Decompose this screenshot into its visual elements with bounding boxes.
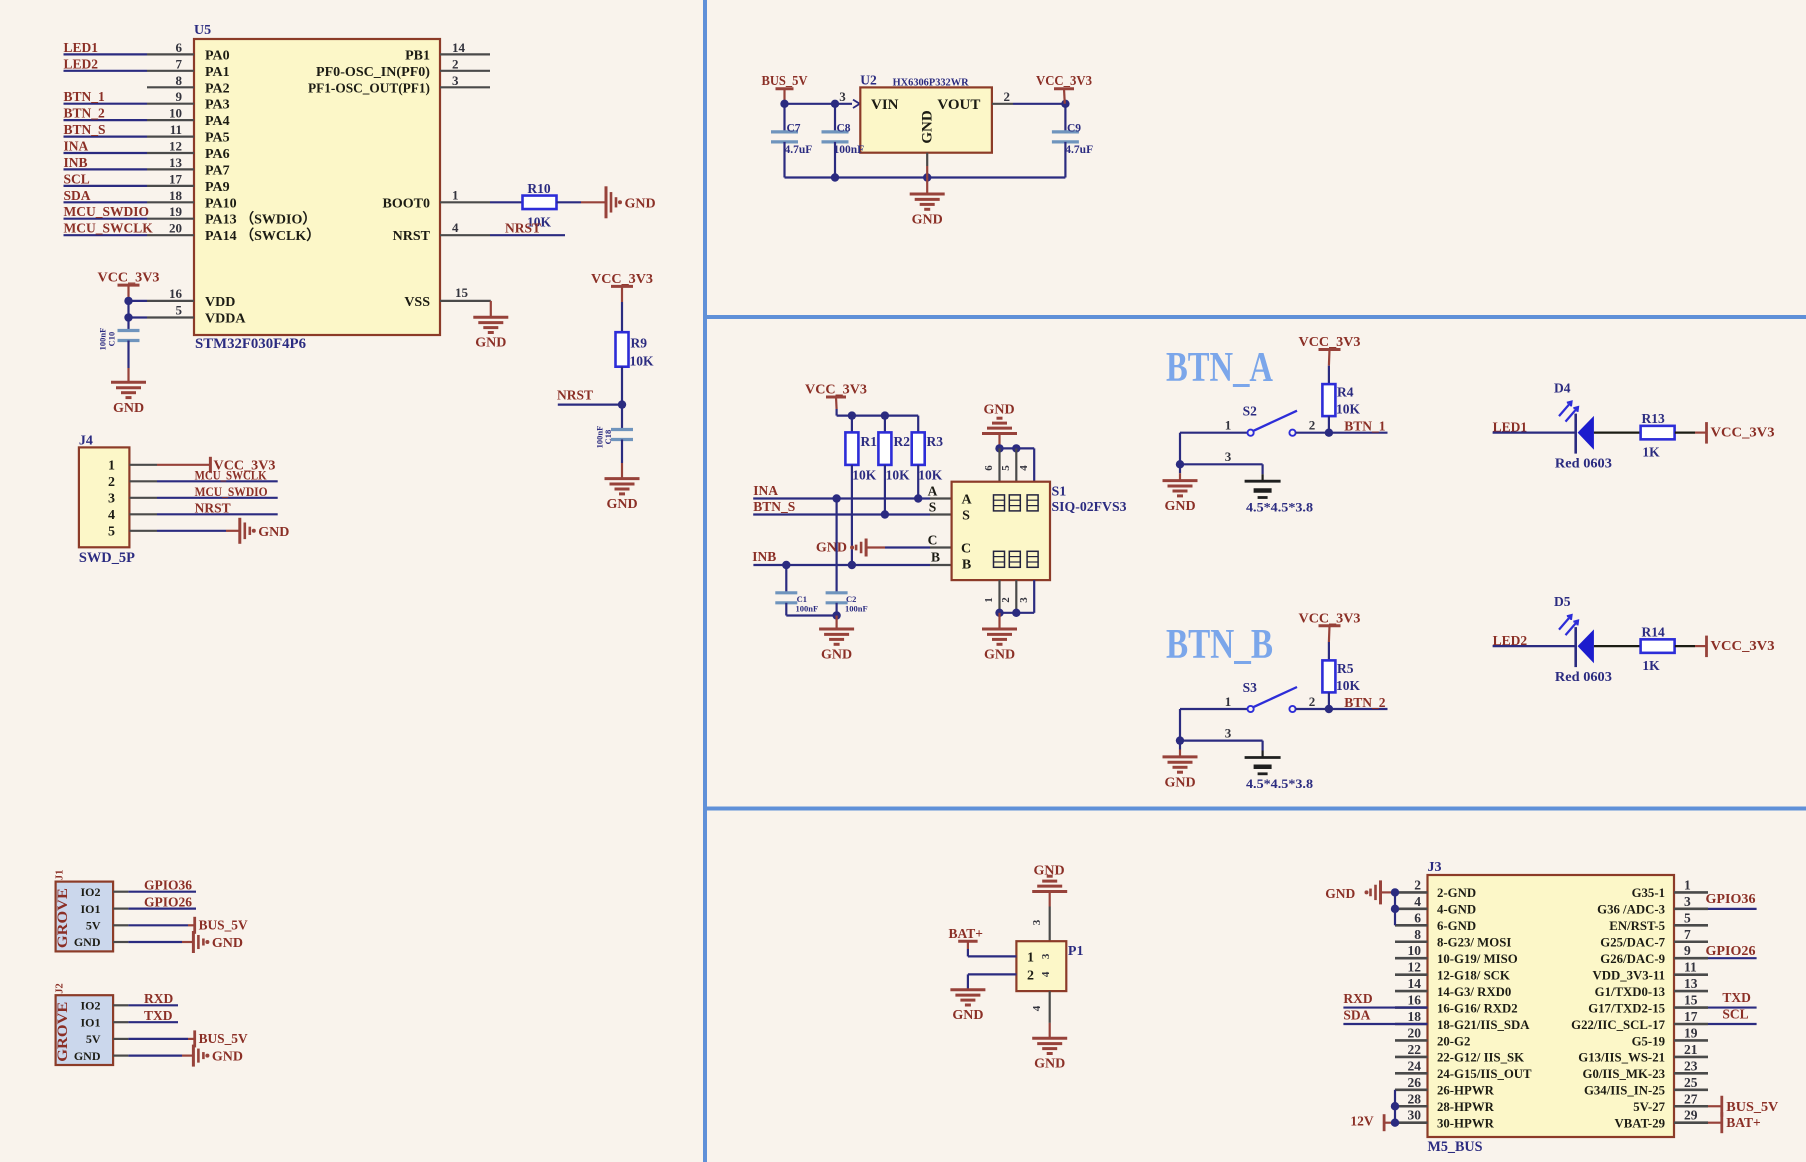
S1 pin 6 stub: [998, 448, 1000, 481]
svg-text:5V-27: 5V-27: [1633, 1100, 1665, 1114]
svg-text:2: 2: [1309, 694, 1316, 709]
junction pin28: [1391, 1102, 1399, 1110]
S1 contact glyph: [1027, 551, 1038, 567]
svg-text:19: 19: [169, 204, 183, 219]
junction pin4: [1391, 905, 1399, 913]
svg-text:R9: R9: [631, 336, 648, 351]
S1 contact glyph: [1009, 551, 1020, 567]
svg-text:11: 11: [170, 122, 182, 137]
junction BTN_1: [1325, 429, 1333, 437]
svg-text:B: B: [931, 550, 940, 565]
svg-text:INA: INA: [64, 139, 89, 154]
svg-text:18-G21/IIS_SDA: 18-G21/IIS_SDA: [1437, 1018, 1530, 1032]
svg-text:IO2: IO2: [80, 885, 100, 899]
svg-text:4-GND: 4-GND: [1437, 903, 1476, 917]
svg-text:PA4: PA4: [205, 114, 230, 129]
capacitor C2 100nF: [826, 591, 848, 594]
svg-text:GPIO26: GPIO26: [144, 894, 192, 909]
wire VCC to VDD VDDA: [129, 300, 148, 302]
svg-text:PA3: PA3: [205, 98, 230, 113]
svg-text:10K: 10K: [1336, 678, 1361, 693]
J3 pin 15 G17/TXD2-15: [1674, 1006, 1708, 1009]
J3 pin 10 10-G19/ MISO: [1395, 957, 1428, 960]
junction S1 pin 5: [1012, 444, 1020, 452]
wire BAT+ to pin1: [967, 949, 969, 956]
U2 GND pin wire: [926, 153, 928, 166]
svg-text:GND: GND: [113, 401, 144, 416]
junction C2 gnd: [832, 611, 840, 619]
power VCC_3V3 at J4: [209, 457, 212, 473]
wire P1 pin 3 to gnd: [1049, 892, 1051, 907]
svg-text:28-HPWR: 28-HPWR: [1437, 1100, 1495, 1114]
wire pin3 to chassis: [1261, 464, 1263, 474]
svg-text:S: S: [929, 500, 937, 515]
svg-text:MCU_SWCLK: MCU_SWCLK: [195, 469, 267, 483]
J3 pin 2 2-GND: [1395, 891, 1428, 894]
wire led to resistor: [1594, 645, 1641, 647]
svg-text:PA14 （SWCLK）: PA14 （SWCLK）: [205, 228, 320, 244]
svg-text:VCC_3V3: VCC_3V3: [1036, 73, 1092, 88]
svg-text:3: 3: [1225, 726, 1232, 741]
svg-text:C2: C2: [846, 594, 856, 604]
svg-text:VOUT: VOUT: [937, 97, 980, 113]
wire net TXD: [128, 1021, 178, 1023]
svg-text:8-G23/ MOSI: 8-G23/ MOSI: [1437, 936, 1511, 950]
ground GND below C18: [605, 477, 640, 480]
U5 pin 2 PF0-OSC_IN(PF0): [440, 70, 490, 72]
svg-text:GND: GND: [625, 196, 656, 211]
svg-text:GND: GND: [816, 541, 847, 556]
svg-text:5: 5: [176, 303, 183, 318]
power BUS_5V bar: [193, 917, 196, 934]
J2 pin IO1 stub: [113, 1021, 128, 1023]
J3 pin 22 22-G12/ IIS_SK: [1395, 1056, 1428, 1059]
svg-text:2: 2: [1414, 877, 1421, 892]
J1 pin IO2 stub: [113, 891, 128, 893]
resistor R10: [523, 196, 557, 210]
svg-text:U2: U2: [860, 73, 877, 88]
J2 pin 5V stub: [113, 1038, 128, 1040]
U5 pin 16 VDD: [147, 300, 194, 302]
svg-text:GND: GND: [212, 1050, 243, 1065]
svg-text:28: 28: [1408, 1091, 1422, 1106]
wire net LED1: [64, 53, 148, 55]
svg-text:6: 6: [983, 465, 995, 471]
svg-text:2: 2: [1309, 418, 1316, 433]
capacitor C7 4.7uF: [783, 104, 785, 132]
svg-text:PA10: PA10: [205, 196, 237, 211]
capacitor C9 4.7uF: [1064, 104, 1066, 132]
svg-text:11: 11: [1684, 960, 1697, 975]
junction S1 pin 6: [995, 444, 1003, 452]
svg-text:3: 3: [452, 73, 459, 88]
ground GND at J4: [238, 518, 241, 544]
wire VSS to ground: [490, 301, 492, 317]
U5 pin 17 PA9: [147, 185, 194, 187]
junction node VDDA: [124, 313, 132, 321]
wire net MCU_SWDIO: [64, 218, 148, 220]
resistor R1 10K: [851, 416, 853, 433]
svg-text:GROVE: GROVE: [55, 888, 71, 948]
J2 pin IO2 stub: [113, 1004, 128, 1006]
U5 pin 7 PA1: [147, 70, 194, 72]
svg-text:PA5: PA5: [205, 131, 230, 146]
J3 pin 12 12-G18/ SCK: [1395, 973, 1428, 976]
svg-text:R5: R5: [1337, 661, 1354, 676]
svg-text:SCL: SCL: [64, 171, 90, 186]
svg-text:VDDA: VDDA: [205, 312, 246, 327]
svg-text:BTN_S: BTN_S: [753, 499, 795, 514]
junction BTN_S R2: [881, 510, 889, 518]
ground GND at VSS: [473, 316, 508, 319]
J3 pin 28 28-HPWR: [1395, 1105, 1428, 1108]
resistor R2 10K: [884, 416, 886, 433]
svg-text:8: 8: [1414, 927, 1421, 942]
svg-text:IO1: IO1: [80, 1015, 100, 1029]
wire pin3 row: [1180, 463, 1263, 465]
svg-text:18: 18: [169, 188, 183, 203]
ground GND at P1 pin2: [950, 988, 985, 991]
connector J4 box: [79, 447, 129, 547]
mcu U5 box: [194, 39, 440, 335]
svg-text:2: 2: [1004, 89, 1011, 104]
S1 pin 4 stub: [1033, 448, 1035, 481]
svg-text:100nF: 100nF: [796, 604, 819, 614]
svg-text:1: 1: [1225, 418, 1232, 433]
svg-text:VCC_3V3: VCC_3V3: [98, 270, 160, 285]
wire net BTN_1: [1329, 432, 1388, 434]
J3 pin 14 14-G3/ RXD0: [1395, 990, 1428, 993]
svg-text:A: A: [928, 484, 938, 499]
svg-text:3: 3: [1684, 894, 1691, 909]
svg-text:17: 17: [1684, 1009, 1698, 1024]
svg-text:TXD: TXD: [144, 1008, 173, 1023]
svg-text:BTN_1: BTN_1: [1344, 419, 1386, 434]
ground GND at J1: [192, 931, 195, 953]
svg-text:M5_BUS: M5_BUS: [1428, 1139, 1483, 1155]
svg-text:6-GND: 6-GND: [1437, 919, 1476, 933]
svg-text:U5: U5: [194, 23, 211, 38]
wire net GPIO26: [128, 907, 196, 909]
svg-text:VSS: VSS: [404, 295, 430, 310]
svg-text:30-HPWR: 30-HPWR: [1437, 1117, 1495, 1131]
junction BTN_2: [1325, 705, 1333, 713]
svg-text:VDD: VDD: [205, 295, 235, 310]
J3 pin 17 G22/IIC_SCL-17: [1674, 1023, 1708, 1026]
svg-text:GND: GND: [1164, 775, 1195, 790]
wire VCC to R9: [621, 302, 623, 332]
wire pin3 row: [1180, 739, 1263, 741]
wire net NRST: [490, 234, 565, 236]
wire net BTN_2: [1329, 708, 1388, 710]
svg-text:C8: C8: [837, 123, 851, 135]
svg-text:GND: GND: [920, 110, 936, 144]
svg-text:3: 3: [1018, 597, 1030, 603]
svg-text:R14: R14: [1642, 625, 1665, 640]
svg-text:1: 1: [983, 597, 995, 603]
wire C1 C2 ground rail: [786, 614, 836, 616]
svg-text:SCL: SCL: [1722, 1007, 1748, 1022]
wire VDDA to C10: [127, 318, 129, 331]
junction VOUT C9: [1061, 100, 1069, 108]
svg-text:C: C: [961, 542, 971, 557]
connector J2 box: [56, 995, 114, 1065]
svg-text:R3: R3: [927, 434, 944, 449]
svg-text:2: 2: [108, 475, 115, 490]
J3 pin 24 24-G15/IIS_OUT: [1395, 1072, 1428, 1075]
ground GND below S1: [982, 628, 1017, 631]
led D4 triangle: [1578, 416, 1594, 450]
svg-text:P1: P1: [1068, 944, 1084, 959]
svg-text:2: 2: [452, 56, 459, 71]
svg-text:1: 1: [108, 459, 115, 474]
svg-text:14: 14: [1408, 976, 1422, 991]
svg-text:C9: C9: [1067, 123, 1081, 135]
svg-text:BTN_1: BTN_1: [64, 89, 106, 104]
U5 pin 8 PA2: [147, 86, 194, 88]
svg-text:1K: 1K: [1642, 658, 1660, 673]
svg-text:10K: 10K: [886, 468, 911, 483]
svg-text:VCC_3V3: VCC_3V3: [805, 382, 867, 397]
svg-text:GND: GND: [821, 648, 852, 663]
svg-text:1: 1: [452, 188, 459, 203]
svg-text:15: 15: [1684, 993, 1698, 1008]
svg-text:2-GND: 2-GND: [1437, 886, 1476, 900]
power VCC_3V3 at led: [1705, 636, 1708, 658]
junction S1 pin2: [1012, 609, 1020, 617]
J4 pin 4 wire NRST: [129, 513, 157, 515]
svg-text:10: 10: [169, 106, 182, 121]
svg-text:NRST: NRST: [195, 501, 231, 516]
svg-text:27: 27: [1684, 1091, 1698, 1106]
power BAT+ at J3: [1708, 1122, 1722, 1124]
wire R9 to NRST node: [621, 367, 623, 405]
resistor R5 10K: [1322, 660, 1335, 692]
J4 pin 3 wire MCU_SWDIO: [129, 497, 157, 499]
svg-text:3: 3: [839, 89, 846, 104]
wire to gnd: [1179, 464, 1181, 473]
U5 pin 6 PA0: [147, 53, 194, 55]
svg-text:14-G3/ RXD0: 14-G3/ RXD0: [1437, 985, 1511, 999]
capacitor C1 100nF: [785, 565, 787, 593]
J1 pin IO1 stub: [113, 907, 128, 909]
wire pin2 to gnd: [968, 973, 1017, 975]
svg-text:1: 1: [1225, 694, 1232, 709]
svg-text:5: 5: [108, 525, 115, 540]
svg-text:5V: 5V: [86, 1032, 101, 1046]
wire GND row: [128, 941, 182, 943]
svg-text:TXD: TXD: [1722, 990, 1751, 1005]
svg-text:PA6: PA6: [205, 147, 230, 162]
wire net SCL: [64, 185, 148, 187]
J3 pin 20 20-G2: [1395, 1039, 1428, 1042]
svg-text:C1: C1: [797, 594, 807, 604]
svg-text:22: 22: [1408, 1042, 1422, 1057]
J3 pin 11 VDD_3V3-11: [1674, 973, 1708, 976]
svg-text:16: 16: [169, 286, 183, 301]
wire GND row: [128, 1054, 182, 1056]
svg-text:SDA: SDA: [1343, 1008, 1370, 1023]
svg-text:4: 4: [1018, 465, 1030, 471]
wire C18 to GND: [621, 440, 623, 464]
svg-text:LED1: LED1: [64, 40, 99, 55]
svg-text:BTN_B: BTN_B: [1166, 622, 1273, 668]
svg-text:S2: S2: [1243, 404, 1258, 419]
svg-text:100nF: 100nF: [845, 604, 868, 614]
capacitor C8 100nF: [834, 104, 836, 132]
svg-text:VCC_3V3: VCC_3V3: [1299, 334, 1361, 349]
svg-text:C18: C18: [603, 430, 613, 445]
wire sheet divider horizontal lower: [703, 807, 1806, 811]
svg-text:R2: R2: [894, 434, 911, 449]
svg-text:GND: GND: [258, 525, 289, 540]
wire BUS_5V rail to VIN: [785, 103, 853, 105]
wire net BTN_S: [64, 136, 148, 138]
svg-text:1: 1: [1684, 877, 1691, 892]
svg-text:VIN: VIN: [871, 97, 899, 113]
wire net MCU_SWCLK: [64, 234, 148, 236]
svg-text:4.5*4.5*3.8: 4.5*4.5*3.8: [1246, 776, 1314, 791]
svg-text:PF1-OSC_OUT(PF1): PF1-OSC_OUT(PF1): [308, 81, 430, 96]
J3 pin 3 G36 /ADC-3: [1674, 908, 1708, 911]
svg-text:12-G18/ SCK: 12-G18/ SCK: [1437, 968, 1510, 982]
wire 5V to BUS_5V: [128, 924, 188, 926]
svg-text:GPIO36: GPIO36: [1706, 891, 1756, 906]
svg-text:RXD: RXD: [144, 991, 173, 1006]
svg-text:D5: D5: [1554, 594, 1571, 609]
U2 pin 2 VOUT wire: [992, 103, 1013, 105]
J3 pin 26 26-HPWR: [1395, 1089, 1428, 1092]
svg-text:INB: INB: [752, 549, 776, 564]
svg-text:A: A: [961, 493, 972, 508]
svg-text:B: B: [962, 558, 971, 573]
U5 pin 11 PA5: [147, 136, 194, 138]
resistor R4 10K: [1322, 384, 1335, 416]
J4 pin 2 wire MCU_SWCLK: [129, 480, 157, 482]
junction C8: [831, 100, 839, 108]
J3 pin 6 6-GND: [1395, 924, 1428, 927]
svg-text:26: 26: [1408, 1075, 1422, 1090]
svg-text:J2: J2: [55, 983, 66, 994]
svg-text:GND: GND: [475, 336, 506, 351]
connector P1 box: [1016, 941, 1066, 991]
svg-text:1: 1: [1027, 951, 1034, 966]
svg-text:4: 4: [452, 220, 459, 235]
svg-text:S3: S3: [1243, 680, 1258, 695]
J1 pin GND stub: [113, 941, 128, 943]
connector J3 box: [1428, 875, 1675, 1137]
wire net GPIO36: [128, 891, 196, 893]
svg-text:GND: GND: [952, 1008, 983, 1023]
svg-text:5: 5: [1684, 910, 1691, 925]
svg-text:13: 13: [1684, 976, 1698, 991]
J3 pin 18 18-G21/IIS_SDA: [1395, 1023, 1428, 1026]
svg-text:NRST: NRST: [557, 388, 593, 403]
wire switch pin1 down: [1179, 433, 1181, 465]
svg-text:S1: S1: [1052, 485, 1067, 500]
svg-text:PB1: PB1: [405, 48, 430, 63]
svg-text:GND: GND: [74, 935, 101, 949]
svg-text:PA0: PA0: [205, 48, 230, 63]
J3 pin 7 G25/DAC-7: [1674, 940, 1708, 943]
svg-text:29: 29: [1684, 1108, 1698, 1123]
svg-text:SWD_5P: SWD_5P: [79, 550, 135, 566]
J1 pin 5V stub: [113, 924, 128, 926]
wire gnd pins 2 4 6: [1394, 892, 1396, 925]
wire R1 bottom long to INB row: [851, 465, 853, 565]
J4 pin 5 wire to GND: [129, 530, 157, 532]
J3 pin 4 4-GND: [1395, 908, 1428, 911]
svg-text:PA9: PA9: [205, 180, 230, 195]
junction C7: [780, 100, 788, 108]
ground GND below C10: [111, 381, 146, 384]
S1 pin 1 stub: [998, 580, 1000, 613]
svg-text:6: 6: [1414, 910, 1421, 925]
svg-text:12: 12: [169, 139, 182, 154]
J3 pin 27 5V-27: [1674, 1105, 1708, 1108]
svg-text:10K: 10K: [1336, 402, 1361, 417]
wire ground rail U2: [785, 176, 1066, 178]
svg-text:5: 5: [1000, 465, 1012, 471]
svg-text:12V: 12V: [1350, 1114, 1374, 1129]
ground GND at J2: [192, 1045, 195, 1067]
svg-text:BAT+: BAT+: [949, 926, 983, 941]
svg-text:J3: J3: [1428, 860, 1442, 875]
svg-text:100nF: 100nF: [98, 328, 108, 351]
svg-text:GND: GND: [984, 648, 1015, 663]
wire led to resistor: [1594, 432, 1641, 434]
svg-text:6: 6: [176, 40, 183, 55]
wire net BTN_1: [64, 103, 148, 105]
svg-text:3: 3: [1225, 449, 1232, 464]
J2 pin GND stub: [113, 1054, 128, 1056]
svg-text:3: 3: [108, 492, 115, 507]
svg-text:G34/IIS_IN-25: G34/IIS_IN-25: [1584, 1084, 1665, 1098]
svg-text:G5-19: G5-19: [1632, 1034, 1665, 1048]
svg-text:BTN_2: BTN_2: [1344, 695, 1386, 710]
J3 pin 21 G13/IIS_WS-21: [1674, 1056, 1708, 1059]
J3 pin 23 G0/IIS_MK-23: [1674, 1072, 1708, 1075]
svg-text:G36 /ADC-3: G36 /ADC-3: [1597, 903, 1665, 917]
chassis ground body: [1245, 756, 1281, 759]
svg-text:9: 9: [1684, 943, 1691, 958]
S1 contact glyph: [994, 495, 1005, 511]
svg-text:4: 4: [108, 508, 115, 523]
svg-text:4: 4: [1414, 894, 1421, 909]
svg-text:20: 20: [169, 221, 182, 236]
ground GND at R10: [605, 186, 608, 218]
svg-text:14: 14: [452, 40, 466, 55]
svg-text:G22/IIC_SCL-17: G22/IIC_SCL-17: [1571, 1018, 1665, 1032]
svg-text:1K: 1K: [1642, 445, 1660, 460]
svg-text:BAT+: BAT+: [1726, 1115, 1760, 1130]
svg-text:GROVE: GROVE: [55, 1002, 71, 1062]
svg-text:8: 8: [176, 73, 183, 88]
svg-text:17: 17: [169, 171, 183, 186]
svg-text:10K: 10K: [852, 468, 877, 483]
junction INA R3: [914, 494, 922, 502]
svg-text:PF0-OSC_IN(PF0): PF0-OSC_IN(PF0): [316, 65, 430, 80]
svg-text:R1: R1: [861, 434, 878, 449]
svg-text:2: 2: [1027, 969, 1034, 984]
junction node VDD: [124, 297, 132, 305]
junction R2 top: [881, 411, 889, 419]
svg-text:20-G2: 20-G2: [1437, 1034, 1470, 1048]
svg-text:GND: GND: [606, 497, 637, 512]
J3 pin 8 8-G23/ MOSI: [1395, 940, 1428, 943]
svg-text:10K: 10K: [630, 354, 655, 369]
wire sheet divider vertical: [703, 0, 707, 1162]
